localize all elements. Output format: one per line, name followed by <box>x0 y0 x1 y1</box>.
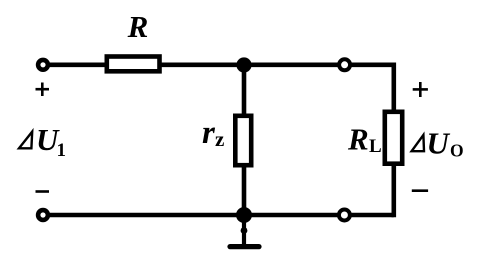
svg-text:R: R <box>347 122 369 157</box>
svg-text:1: 1 <box>57 140 67 161</box>
svg-text:U: U <box>427 126 451 161</box>
svg-text:r: r <box>202 115 216 151</box>
svg-text:O: O <box>450 141 464 161</box>
svg-text:R: R <box>127 9 149 44</box>
svg-text:L: L <box>369 136 382 157</box>
svg-text:z: z <box>215 127 224 151</box>
